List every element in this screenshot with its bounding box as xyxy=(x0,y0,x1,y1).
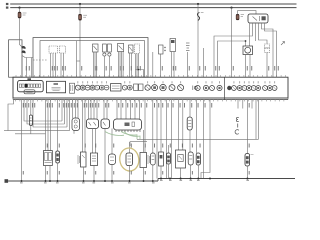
wire xyxy=(61,100,63,121)
pump M2 xyxy=(243,46,253,55)
label 4B xyxy=(27,78,31,80)
wire green 1 xyxy=(121,132,137,140)
wire xyxy=(19,8,21,38)
highlight ellipse (yellow annotation) xyxy=(118,147,140,172)
lambda sensor B9 xyxy=(188,152,193,165)
connector pair X4 xyxy=(44,151,53,166)
wire xyxy=(259,26,268,44)
capacitor C5 xyxy=(56,151,60,163)
wire xyxy=(96,100,98,119)
gauge M3 xyxy=(152,85,158,91)
LCD display xyxy=(111,84,122,91)
ECU strip outer box xyxy=(13,77,288,98)
capacitor C6 xyxy=(166,153,170,164)
wire xyxy=(129,142,131,153)
wire xyxy=(197,4,199,77)
lamp R9 xyxy=(272,86,277,91)
ignition switch contacts S2 xyxy=(22,46,25,53)
lamp M9 xyxy=(210,86,215,91)
wire xyxy=(138,54,140,78)
wire xyxy=(165,100,167,179)
lamp M11 (dark) xyxy=(227,86,231,90)
wire xyxy=(180,168,182,179)
wire xyxy=(104,129,106,182)
fusebox outer box xyxy=(33,38,148,78)
lamp M8 xyxy=(203,85,208,90)
capacitor C7 xyxy=(196,153,200,165)
wire xyxy=(265,26,277,77)
wire xyxy=(173,52,175,78)
speed sensor B10 xyxy=(245,154,254,167)
wire xyxy=(170,100,172,179)
wire xyxy=(139,100,141,119)
wire xyxy=(190,165,192,179)
wire xyxy=(4,130,70,132)
wire xyxy=(118,52,120,78)
wire xyxy=(111,165,113,182)
wire xyxy=(152,165,154,181)
fuse F2 xyxy=(79,14,82,20)
wire xyxy=(203,48,205,77)
wire xyxy=(136,54,138,78)
wire xyxy=(60,53,62,77)
sensor B1 xyxy=(159,45,166,54)
wire xyxy=(108,56,110,77)
connector X9 (dashed) xyxy=(265,44,270,52)
wire xyxy=(45,100,47,151)
wire xyxy=(55,53,57,77)
wire xyxy=(160,100,162,152)
ground labels xyxy=(20,180,249,184)
relay K5 xyxy=(118,44,124,52)
relay K6 xyxy=(129,45,134,53)
indicator lamp L6 xyxy=(99,85,104,90)
wire xyxy=(79,4,81,77)
label bus 15 xyxy=(6,7,8,9)
wire xyxy=(152,52,154,77)
wire tie xyxy=(77,60,81,62)
wire xyxy=(246,166,248,179)
wire xyxy=(182,100,184,150)
wire xyxy=(15,133,46,135)
wire xyxy=(21,100,23,181)
indicator lamp L2 xyxy=(80,85,85,90)
wire xyxy=(82,100,84,152)
wire xyxy=(83,167,85,181)
wire xyxy=(77,100,79,118)
wire xyxy=(258,100,260,140)
wire green 0 xyxy=(105,132,124,136)
wire xyxy=(106,100,108,119)
wire xyxy=(69,100,71,131)
wire xyxy=(120,100,122,119)
switch module S4 xyxy=(87,119,99,129)
indicator lamp L4 xyxy=(90,85,95,90)
indicator lamp L3 xyxy=(85,85,90,90)
indicator lamp L5 xyxy=(95,85,100,90)
wire xyxy=(75,100,77,118)
lamp R3 xyxy=(242,86,247,91)
wire tie xyxy=(136,70,144,78)
sensor B2 xyxy=(186,43,190,51)
connector X3 (dashed) xyxy=(135,44,140,54)
wire xyxy=(143,130,145,152)
strip divider xyxy=(224,77,226,99)
wire xyxy=(93,52,95,77)
resistor R10 xyxy=(29,115,32,126)
wire xyxy=(96,52,98,77)
wire xyxy=(94,52,96,77)
wire xyxy=(129,53,131,77)
wire xyxy=(130,142,147,146)
ground terminal block xyxy=(5,179,9,183)
wire xyxy=(21,56,23,78)
connector X1 (dashed) xyxy=(49,46,58,53)
wire xyxy=(189,130,191,152)
fuse F4 xyxy=(236,14,239,20)
node junction xyxy=(245,40,247,42)
sensor B3 xyxy=(78,152,86,167)
wire xyxy=(122,52,124,78)
wire xyxy=(66,100,68,127)
node A1 (tap on bus 15) xyxy=(18,7,20,9)
wire xyxy=(255,100,257,140)
wire xyxy=(245,55,247,78)
indicator lamp L8 xyxy=(122,85,127,90)
wire xyxy=(195,100,197,153)
wire xyxy=(47,100,49,151)
wire xyxy=(249,26,251,46)
gauge box G2 xyxy=(139,84,143,91)
bus 15 (second supply rail) xyxy=(10,7,296,9)
flasher unit K4 xyxy=(108,44,112,56)
wire xyxy=(168,164,170,179)
dashed boundary xyxy=(33,59,48,61)
wire xyxy=(121,52,123,78)
wire xyxy=(26,58,28,78)
wire xyxy=(177,100,179,150)
ground bus step xyxy=(157,179,159,182)
bus 30 (top supply rail) xyxy=(10,3,296,5)
node A3 (tap on bus 30) xyxy=(197,3,199,5)
wire xyxy=(27,100,65,124)
cluster module B xyxy=(47,81,66,93)
wire xyxy=(45,166,47,182)
wire xyxy=(63,53,65,77)
wire (long horizontal) xyxy=(137,138,259,140)
wire xyxy=(33,100,67,127)
lamp M10 xyxy=(217,85,222,90)
lamp R7 xyxy=(263,86,268,91)
ignition switch box S1 xyxy=(9,40,22,77)
label C13 xyxy=(235,117,239,134)
wire xyxy=(30,126,32,134)
wire stub xyxy=(251,100,253,109)
wire xyxy=(129,166,131,182)
wire stub xyxy=(242,100,244,109)
stalk switch module S6 xyxy=(114,119,142,132)
wire xyxy=(160,166,162,179)
wire xyxy=(134,100,136,119)
wire stub xyxy=(237,100,239,109)
wire xyxy=(23,56,34,58)
fuse F3 (wavy symbol) xyxy=(197,13,199,21)
lamp R4 xyxy=(247,86,252,91)
wire xyxy=(255,26,257,41)
wire green 2 xyxy=(124,132,140,140)
wire xyxy=(57,163,59,181)
wire xyxy=(160,54,162,77)
wire xyxy=(103,56,105,77)
symbol pair xyxy=(193,86,198,91)
ECU strip bottom line xyxy=(13,99,288,101)
relay K2 xyxy=(93,44,99,52)
connector X6 xyxy=(109,154,116,165)
indicator lamp L9 xyxy=(127,85,132,90)
wire xyxy=(95,129,97,154)
lamp R8 xyxy=(267,86,272,91)
lamp R6 xyxy=(256,86,261,91)
wire xyxy=(116,100,118,119)
sensor B5 xyxy=(140,153,149,168)
wire xyxy=(214,26,253,77)
wire xyxy=(202,100,204,179)
resistor R11 xyxy=(91,153,98,166)
lamp R5 xyxy=(251,86,256,91)
label F2 xyxy=(83,15,87,17)
wire xyxy=(72,100,74,118)
wire xyxy=(93,100,95,119)
cluster connector module A xyxy=(18,81,44,94)
wire xyxy=(30,58,32,78)
wire xyxy=(88,100,90,119)
indicator lamp L10 xyxy=(145,85,150,90)
lamp R2 xyxy=(237,86,242,91)
wire xyxy=(266,52,268,77)
switch S3 xyxy=(170,39,176,52)
wire xyxy=(92,129,94,154)
wire xyxy=(73,131,75,134)
wire xyxy=(64,100,66,124)
node A4 (tap on bus 15) xyxy=(230,7,232,9)
wire xyxy=(238,11,256,15)
wire xyxy=(135,54,137,78)
wire xyxy=(8,100,14,131)
lamp M7 xyxy=(195,86,200,91)
wire xyxy=(152,100,154,153)
wire xyxy=(171,52,173,78)
flasher unit K3 xyxy=(103,44,107,56)
gauge box G1 xyxy=(134,84,138,91)
wire xyxy=(168,145,170,153)
highlighted sensor B4 xyxy=(126,153,133,166)
wire xyxy=(103,100,105,119)
wire xyxy=(218,41,246,77)
wire xyxy=(249,55,251,78)
gauge M5 xyxy=(169,85,175,91)
label F4 xyxy=(241,15,244,17)
wire xyxy=(50,100,52,151)
wire xyxy=(201,100,210,179)
gauge M6 xyxy=(178,85,184,91)
sensor B6 xyxy=(151,153,156,165)
gauge M4 xyxy=(160,84,166,90)
ground bus right xyxy=(158,178,295,180)
wire xyxy=(231,8,233,78)
injector Y1 xyxy=(187,117,192,130)
node A2 (tap on bus 30) xyxy=(79,3,81,5)
wire xyxy=(187,52,189,77)
ECU pin ticks top edge xyxy=(16,75,286,77)
wire xyxy=(57,100,59,151)
wire xyxy=(111,129,113,155)
wire xyxy=(49,166,51,182)
sensor B7 xyxy=(159,152,164,166)
wire xyxy=(156,100,158,179)
connector X2 (dashed) xyxy=(60,46,66,53)
relay K1 pins xyxy=(250,23,265,26)
connector X5 xyxy=(72,118,80,131)
wire xyxy=(84,100,86,152)
fuse F1 xyxy=(18,12,21,18)
symbol arrow xyxy=(281,42,285,46)
lamp R1 xyxy=(232,86,237,91)
wire xyxy=(30,100,32,115)
wire xyxy=(189,100,191,117)
wire xyxy=(246,100,248,154)
wire xyxy=(76,41,78,78)
connector C1 xyxy=(70,83,75,93)
wire xyxy=(197,165,199,179)
indicator lamp L7 xyxy=(104,85,109,90)
label F1 xyxy=(23,13,27,15)
fusebox inner box xyxy=(40,41,145,78)
label F3 xyxy=(201,11,204,13)
wire xyxy=(24,100,62,121)
wire xyxy=(143,168,145,182)
wire xyxy=(144,100,146,152)
wire xyxy=(20,38,22,47)
node junction xyxy=(138,69,140,71)
wire xyxy=(90,100,92,119)
wire xyxy=(93,166,95,182)
indicator lamp L1 xyxy=(75,85,80,90)
label bus 30 xyxy=(6,3,8,5)
wire xyxy=(130,100,132,119)
relay K1 xyxy=(248,14,268,23)
wire xyxy=(125,100,127,119)
ground bus left xyxy=(8,180,158,182)
wire xyxy=(131,53,133,77)
wire xyxy=(52,53,54,77)
switch module S5 xyxy=(101,119,110,129)
pin number labels inside strip xyxy=(77,81,275,83)
wire code labels (texture) xyxy=(23,66,279,175)
ground junction dots xyxy=(21,178,249,183)
sensor assembly B8 xyxy=(176,150,186,168)
wire xyxy=(262,26,274,77)
wire xyxy=(119,52,121,78)
wire xyxy=(50,53,52,77)
ECU pin ticks bottom edge xyxy=(16,100,284,102)
